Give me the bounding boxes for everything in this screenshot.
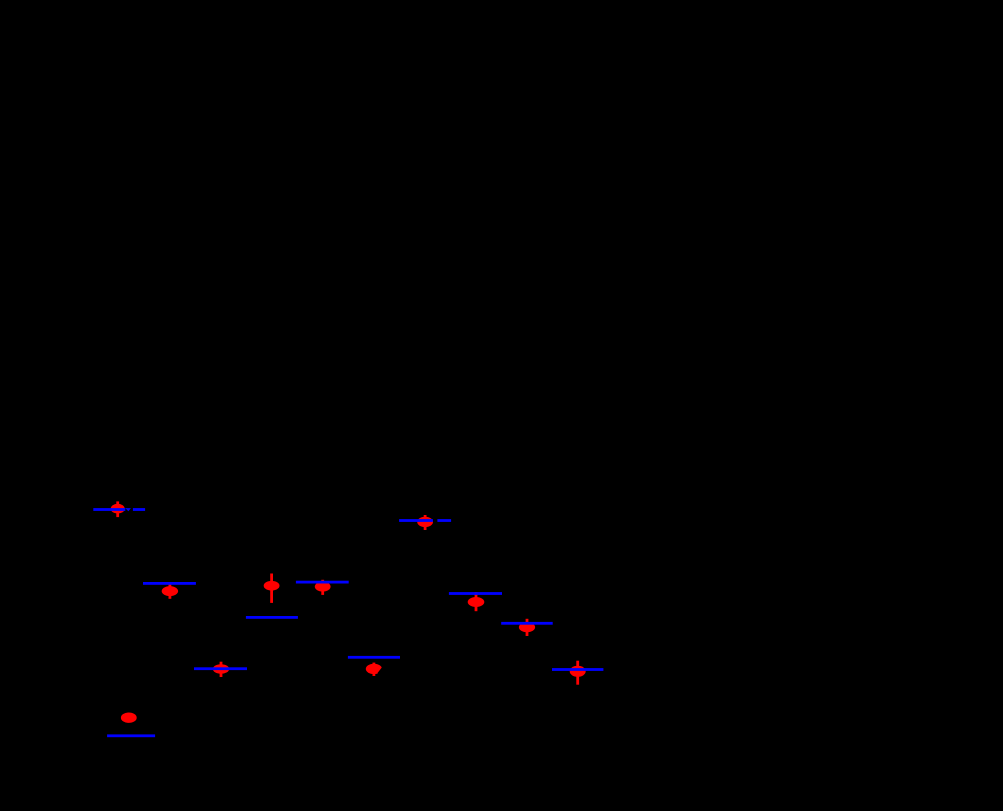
theory line bin 1 right segment — [133, 508, 145, 511]
theory line bin 1 left segment — [93, 508, 125, 511]
data point bin 10 ellipse — [570, 666, 586, 677]
data point bin 8 error bar — [475, 592, 478, 611]
theory line bin 7 left segment — [399, 519, 433, 522]
data point bin 7 error bar — [424, 515, 427, 530]
theory line bin 6 — [348, 656, 400, 659]
data point bin 5 ellipse — [315, 582, 331, 592]
data point bin 3 error bar — [220, 662, 223, 677]
data point bin 4 ellipse — [264, 581, 280, 591]
data point bin 1 error bar — [116, 501, 119, 517]
data point bin 3 ellipse — [213, 664, 229, 673]
legend data marker — [121, 713, 137, 723]
blue triangle remnant inside black V glyph on line 1 — [125, 508, 131, 511]
theory line bin 9 — [501, 622, 553, 625]
data point bin 1 ellipse — [111, 504, 125, 514]
data point bin 5 error bar — [321, 580, 324, 595]
theory line bin 8 — [449, 592, 502, 595]
black slash cut over bin 6 ellipse — [378, 667, 386, 675]
data point bin 2 error bar — [169, 583, 172, 599]
data point bin 10 error bar — [576, 661, 579, 685]
data point bin 6 ellipse — [366, 664, 382, 674]
theory line bin 7 right segment — [437, 519, 451, 522]
theory line bin 2 — [143, 582, 196, 585]
legend theory line sample — [107, 734, 155, 737]
theory line bin 10 — [552, 668, 603, 671]
data point bin 2 ellipse — [162, 586, 178, 596]
data point bin 8 ellipse — [468, 597, 485, 607]
data point bin 7 ellipse — [417, 517, 433, 527]
data point bin 9 error bar — [526, 619, 529, 636]
data point bin 4 error bar — [270, 574, 273, 603]
data point bin 6 error bar — [373, 663, 376, 676]
theory line bin 5 — [296, 581, 349, 584]
theory line bin 3 — [194, 667, 247, 670]
theory line bin 4 — [246, 616, 298, 619]
data point bin 9 ellipse — [519, 622, 535, 632]
